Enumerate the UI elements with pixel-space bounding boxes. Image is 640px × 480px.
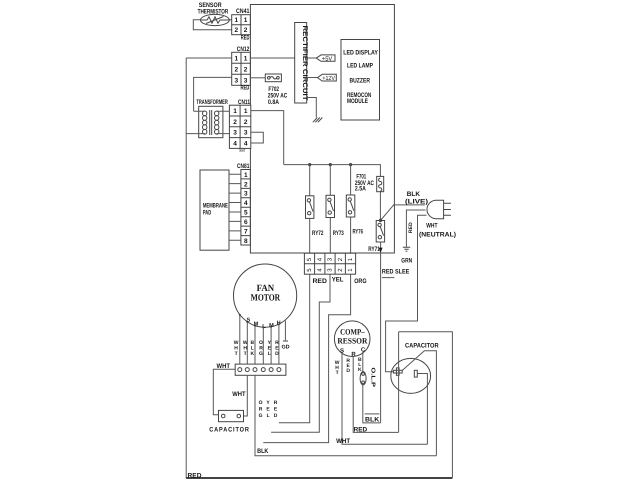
svg-text:TRANSFORMER: TRANSFORMER	[196, 99, 228, 106]
left rail RED wire	[185, 58, 187, 478]
node +5V output	[316, 55, 335, 63]
label WHT compressor	[335, 360, 340, 376]
svg-text:GD: GD	[281, 345, 289, 351]
svg-text:(NEUTRAL): (NEUTRAL)	[419, 232, 456, 239]
wire CN12 pin1 to rectifier input	[250, 57, 294, 59]
svg-text:MEMBRANE: MEMBRANE	[203, 202, 228, 209]
svg-text:2: 2	[235, 66, 239, 73]
svg-text:RY73: RY73	[333, 230, 344, 237]
wire rectifier to +12V	[307, 77, 318, 79]
connector CN41	[232, 8, 251, 41]
wire rectifier to +5V	[307, 57, 317, 59]
svg-text:CN81: CN81	[237, 163, 250, 170]
wire RED strip pin5 to fan strip	[279, 274, 310, 423]
connector CN12	[232, 46, 251, 91]
svg-text:CN41: CN41	[236, 8, 250, 15]
ground (earth GRN)	[401, 247, 412, 264]
svg-text:RED: RED	[354, 426, 368, 433]
wire BLK live plug to board	[394, 204, 425, 206]
svg-text:4: 4	[244, 141, 248, 148]
wire bus to RY72	[309, 165, 311, 196]
svg-text:RY76: RY76	[353, 229, 364, 236]
wire RED run right leg to capacitor	[399, 332, 453, 478]
wire OLP to RY71 BLK	[363, 385, 381, 423]
wire CN12 pin1 to left rail	[186, 57, 232, 59]
svg-text:8: 8	[244, 238, 248, 245]
svg-text:T: T	[336, 370, 339, 376]
label ORG wire below strip	[259, 400, 263, 419]
relay RY73	[326, 195, 344, 237]
fan capacitor C1	[209, 410, 250, 433]
wire motor lead RED	[278, 324, 280, 364]
relay RY71	[368, 219, 384, 254]
svg-text:4: 4	[233, 141, 237, 148]
display PCB module box	[341, 40, 380, 121]
svg-text:LED LAMP: LED LAMP	[347, 62, 374, 69]
wire WHT neutral plug down to capacitor	[386, 215, 427, 371]
wire thermistor to CN41	[193, 20, 231, 30]
node junction RY72	[308, 163, 311, 166]
svg-text:+12V: +12V	[322, 75, 335, 82]
svg-text:L: L	[268, 351, 271, 357]
power plug P1	[427, 200, 451, 219]
svg-text:WHT: WHT	[239, 148, 245, 153]
relay output connector strip 5x2	[304, 253, 355, 274]
wire capacitor left node vertical	[398, 332, 400, 433]
svg-text:O: O	[259, 400, 263, 406]
svg-text:2: 2	[244, 181, 248, 188]
wire YEL strip pin3 to fan strip	[271, 274, 330, 432]
svg-text:R: R	[259, 407, 263, 413]
svg-text:3: 3	[235, 77, 239, 84]
wire live bus	[284, 165, 381, 177]
svg-text:RED SLEE: RED SLEE	[382, 269, 410, 276]
svg-text:ORG: ORG	[354, 278, 366, 285]
svg-text:1: 1	[244, 108, 248, 115]
wire CN11 pin3-pin4 jumper	[251, 132, 263, 143]
svg-text:K: K	[358, 367, 362, 373]
label ORG lead	[259, 340, 263, 357]
svg-text:O.L.P: O.L.P	[370, 368, 376, 388]
label BLK compressor	[358, 357, 362, 373]
svg-text:BLK: BLK	[365, 416, 380, 423]
svg-text:RESSOR: RESSOR	[337, 337, 367, 346]
sensor thermistor TH	[198, 2, 230, 25]
wire capacitor right terminal WHT	[417, 374, 427, 445]
svg-text:(LIVE): (LIVE)	[405, 198, 428, 205]
svg-text:BLK: BLK	[407, 191, 421, 198]
wire compressor C BLK to OLP	[362, 352, 364, 372]
sleeve tick BLK	[365, 413, 380, 415]
label BLK lead	[250, 340, 254, 357]
svg-text:RED: RED	[313, 278, 328, 285]
svg-text:1: 1	[244, 55, 248, 62]
wire RY73 to strip pin3	[329, 218, 331, 254]
wire live diagonal from plug entry to RY71	[381, 204, 395, 220]
svg-text:3: 3	[244, 130, 248, 137]
svg-text:1: 1	[235, 17, 239, 24]
svg-text:M: M	[269, 323, 274, 329]
svg-text:L: L	[267, 413, 270, 419]
svg-text:3: 3	[244, 77, 248, 84]
svg-text:5: 5	[244, 210, 248, 217]
red sleeve mark	[382, 277, 394, 279]
svg-text:G: G	[259, 351, 263, 357]
svg-text:D: D	[346, 368, 350, 374]
connector CN11	[229, 99, 250, 153]
wire CN12 pin3 to transformer primary	[194, 77, 232, 111]
svg-text:T: T	[235, 351, 238, 357]
svg-text:1: 1	[233, 108, 237, 115]
label RED wire below strip	[274, 400, 278, 419]
membrane pad	[200, 170, 229, 250]
wire compressor S WHT	[342, 353, 427, 445]
svg-text:FAN: FAN	[257, 284, 275, 294]
svg-text:C: C	[361, 347, 366, 354]
fan terminal strip	[235, 364, 286, 375]
svg-text:RED: RED	[241, 34, 250, 41]
svg-text:2: 2	[244, 119, 248, 126]
svg-text:RECTIFIER CIRCUIT: RECTIFIER CIRCUIT	[301, 26, 308, 102]
fuse F701 2.5A	[355, 173, 384, 192]
svg-text:G: G	[259, 413, 263, 419]
wire bus to RY73	[329, 165, 331, 196]
svg-text:COMP–: COMP–	[340, 327, 365, 336]
svg-text:RED: RED	[188, 473, 202, 480]
svg-text:YEL: YEL	[332, 277, 344, 284]
label RED compressor	[346, 358, 350, 374]
wire transformer secondary leads to CN11	[217, 111, 230, 133]
wire RY76 to strip pin1	[350, 217, 352, 253]
label WHT lead S	[243, 340, 248, 357]
svg-text:CAPACITOR: CAPACITOR	[405, 342, 439, 349]
wire BLK fan to capacitor node	[255, 375, 436, 456]
svg-text:MODULE: MODULE	[347, 98, 368, 105]
svg-text:D: D	[274, 413, 278, 419]
node junction RY71 top	[379, 219, 382, 222]
wire WHT strip to fan capacitor	[213, 369, 235, 415]
wire ORG strip pin1 to fan strip	[263, 274, 350, 442]
svg-text:6: 6	[244, 219, 248, 226]
svg-text:R: R	[274, 400, 278, 406]
relay RY76	[346, 195, 363, 236]
svg-text:BUZZER: BUZZER	[350, 77, 371, 84]
svg-text:RED: RED	[241, 85, 250, 92]
wire RY72 to strip pin5	[309, 218, 311, 253]
wire motor lead WHT1	[239, 315, 241, 365]
wire capacitor left terminal leader to BLK node	[402, 351, 436, 456]
relay RY72	[306, 196, 324, 237]
svg-text:T: T	[244, 351, 247, 357]
svg-text:3: 3	[233, 130, 237, 137]
node +12V output	[318, 74, 337, 82]
svg-text:3: 3	[244, 191, 248, 198]
wire RY71 output with sleeve arrow	[380, 242, 382, 423]
svg-text:WHT: WHT	[336, 438, 350, 445]
wire transformer primary leads	[186, 111, 205, 133]
svg-text:D: D	[275, 351, 279, 357]
bottom RED run	[186, 477, 452, 479]
motor ground GD	[281, 321, 289, 351]
svg-text:BLK: BLK	[257, 448, 269, 455]
svg-text:K: K	[250, 351, 254, 357]
svg-text:1: 1	[244, 172, 248, 179]
svg-text:1: 1	[235, 55, 239, 62]
overload protector OLP	[360, 368, 375, 388]
svg-text:MOTOR: MOTOR	[251, 294, 281, 304]
svg-text:RY72: RY72	[312, 230, 324, 237]
svg-text:4: 4	[244, 200, 248, 207]
wires membrane pad to CN81	[229, 174, 241, 240]
svg-text:0.8A: 0.8A	[268, 99, 279, 106]
wire compressor R RED	[353, 357, 398, 433]
svg-text:LED DISPLAY: LED DISPLAY	[343, 50, 378, 57]
wire GRN plug to earth	[406, 210, 425, 247]
svg-text:WHT: WHT	[232, 391, 245, 398]
svg-text:1: 1	[244, 17, 248, 24]
fuse F702 0.8A	[265, 74, 287, 106]
wire motor lead BLK	[254, 326, 256, 365]
svg-text:2.5A: 2.5A	[355, 185, 366, 192]
pin ticks on motor	[239, 314, 280, 329]
wire motor lead ORG	[262, 327, 264, 364]
wire motor lead S WHT	[246, 322, 248, 364]
svg-text:2: 2	[244, 66, 248, 73]
main PCB board outline	[250, 5, 394, 254]
svg-text:CAPACITOR: CAPACITOR	[209, 427, 250, 434]
wire motor lead YEL	[270, 327, 272, 365]
label YEL wire below strip	[266, 400, 270, 419]
wire CN12 pin3 to fuse F702	[250, 77, 265, 79]
ground (signal)	[313, 118, 322, 123]
svg-text:RED: RED	[408, 222, 414, 233]
svg-text:7: 7	[244, 229, 248, 236]
label YEL lead	[268, 340, 272, 357]
rectifier circuit U701	[295, 23, 309, 104]
transformer T1	[186, 99, 229, 138]
node junction RY73	[329, 163, 332, 166]
wire WHT strip S to fan capacitor	[244, 375, 248, 416]
label WHT lead1	[234, 340, 239, 357]
connector CN81	[237, 163, 250, 245]
svg-text:M: M	[254, 322, 259, 328]
wire F701 to RY71	[379, 192, 381, 221]
svg-text:PAD: PAD	[203, 210, 211, 217]
label RED lead	[275, 340, 279, 357]
wire rectifier to signal ground	[307, 98, 317, 118]
svg-text:2: 2	[233, 119, 237, 126]
node junction RY76	[349, 163, 352, 166]
svg-text:WHT: WHT	[426, 222, 437, 229]
svg-text:RY71: RY71	[368, 246, 380, 253]
svg-text:2: 2	[244, 27, 248, 34]
compressor M2	[334, 321, 370, 358]
svg-text:R: R	[351, 351, 356, 358]
wire CN11 pin1 to live bus	[251, 111, 284, 165]
svg-text:GRN: GRN	[401, 258, 412, 265]
fan motor M1	[234, 264, 297, 330]
svg-text:2: 2	[235, 27, 239, 34]
run capacitor C2	[391, 342, 439, 393]
svg-text:+5V: +5V	[322, 56, 333, 63]
wire bus to RY76	[350, 165, 352, 195]
